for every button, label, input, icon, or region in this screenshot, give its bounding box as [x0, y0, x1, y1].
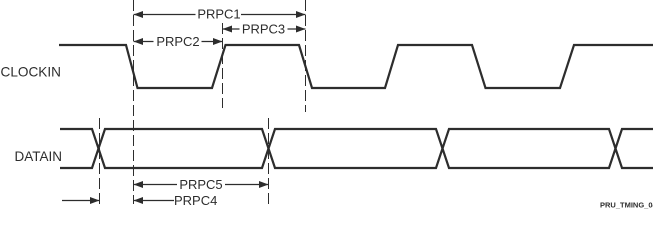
svg-text:DATAIN: DATAIN: [14, 149, 62, 164]
svg-text:PRPC4: PRPC4: [174, 193, 217, 208]
svg-text:CLOCKIN: CLOCKIN: [1, 64, 61, 79]
svg-text:PRU_TMING_04: PRU_TMING_04: [600, 201, 653, 210]
svg-text:PRPC3: PRPC3: [242, 22, 285, 37]
svg-text:PRPC5: PRPC5: [179, 177, 222, 192]
svg-text:PRPC2: PRPC2: [156, 34, 199, 49]
svg-text:PRPC1: PRPC1: [197, 7, 240, 22]
